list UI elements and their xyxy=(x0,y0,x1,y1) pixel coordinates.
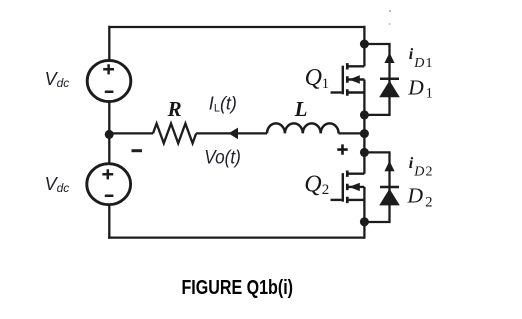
resistor R xyxy=(153,123,196,143)
label plus near inductor xyxy=(337,144,347,154)
wire left rail middle xyxy=(108,102,110,165)
wire left rail upper xyxy=(108,26,110,61)
svg-text:D: D xyxy=(407,76,424,100)
svg-text:1: 1 xyxy=(426,86,433,102)
wire inductor to right rail xyxy=(339,132,365,134)
node left junction dot xyxy=(105,130,114,139)
wire right rail Q1 source to Q2 drain xyxy=(363,80,365,174)
wire resistor to inductor xyxy=(196,132,267,134)
diode D1 xyxy=(379,79,400,97)
svg-text:D1: D1 xyxy=(413,56,434,71)
voltage source Vdc bottom xyxy=(87,164,131,205)
wire top rail xyxy=(109,26,364,28)
svg-text:2: 2 xyxy=(322,182,330,198)
svg-text:Vo(t): Vo(t) xyxy=(204,147,241,169)
transistor Q2 xyxy=(331,171,365,204)
wire middle from node to resistor xyxy=(111,132,153,134)
voltage source Vdc top xyxy=(87,60,131,101)
transistor Q1 xyxy=(331,63,365,96)
current arrow iD2 xyxy=(384,161,394,171)
svg-text:FIGURE Q1b(i): FIGURE Q1b(i) xyxy=(182,277,294,299)
svg-text:Q: Q xyxy=(305,65,322,91)
node right rail D2 top dot xyxy=(360,148,369,157)
svg-text:Vdc: Vdc xyxy=(45,174,70,195)
label minus near Vo xyxy=(132,149,143,152)
current arrow IL on middle wire xyxy=(229,128,239,140)
inductor L xyxy=(267,123,339,133)
svg-text:D2: D2 xyxy=(413,164,434,179)
node right rail bottom dot xyxy=(360,217,369,226)
svg-text:Q: Q xyxy=(304,172,321,198)
node right rail inductor dot xyxy=(360,129,369,138)
node right rail D1 bottom dot xyxy=(360,110,369,119)
wire bottom rail xyxy=(108,236,364,238)
svg-text:IL(t): IL(t) xyxy=(209,94,237,115)
node right rail top dot xyxy=(360,40,369,49)
wire diode D2 branch xyxy=(364,152,389,222)
wire right rail Q2 source to bottom xyxy=(363,187,365,239)
speck top right xyxy=(389,10,391,12)
svg-text:2: 2 xyxy=(425,194,432,210)
svg-text:D: D xyxy=(407,184,424,208)
svg-text:i: i xyxy=(409,155,414,172)
current arrow iD1 xyxy=(384,53,394,63)
svg-text:1: 1 xyxy=(322,76,329,92)
diode D2 xyxy=(379,187,400,205)
wire right rail top to Q1 drain xyxy=(363,26,365,67)
svg-text:R: R xyxy=(167,97,182,121)
wire diode D1 branch xyxy=(364,44,389,115)
svg-text:i: i xyxy=(409,46,414,63)
svg-text:Vdc: Vdc xyxy=(45,69,70,90)
svg-text:L: L xyxy=(294,97,308,121)
wire left rail lower xyxy=(108,204,110,238)
